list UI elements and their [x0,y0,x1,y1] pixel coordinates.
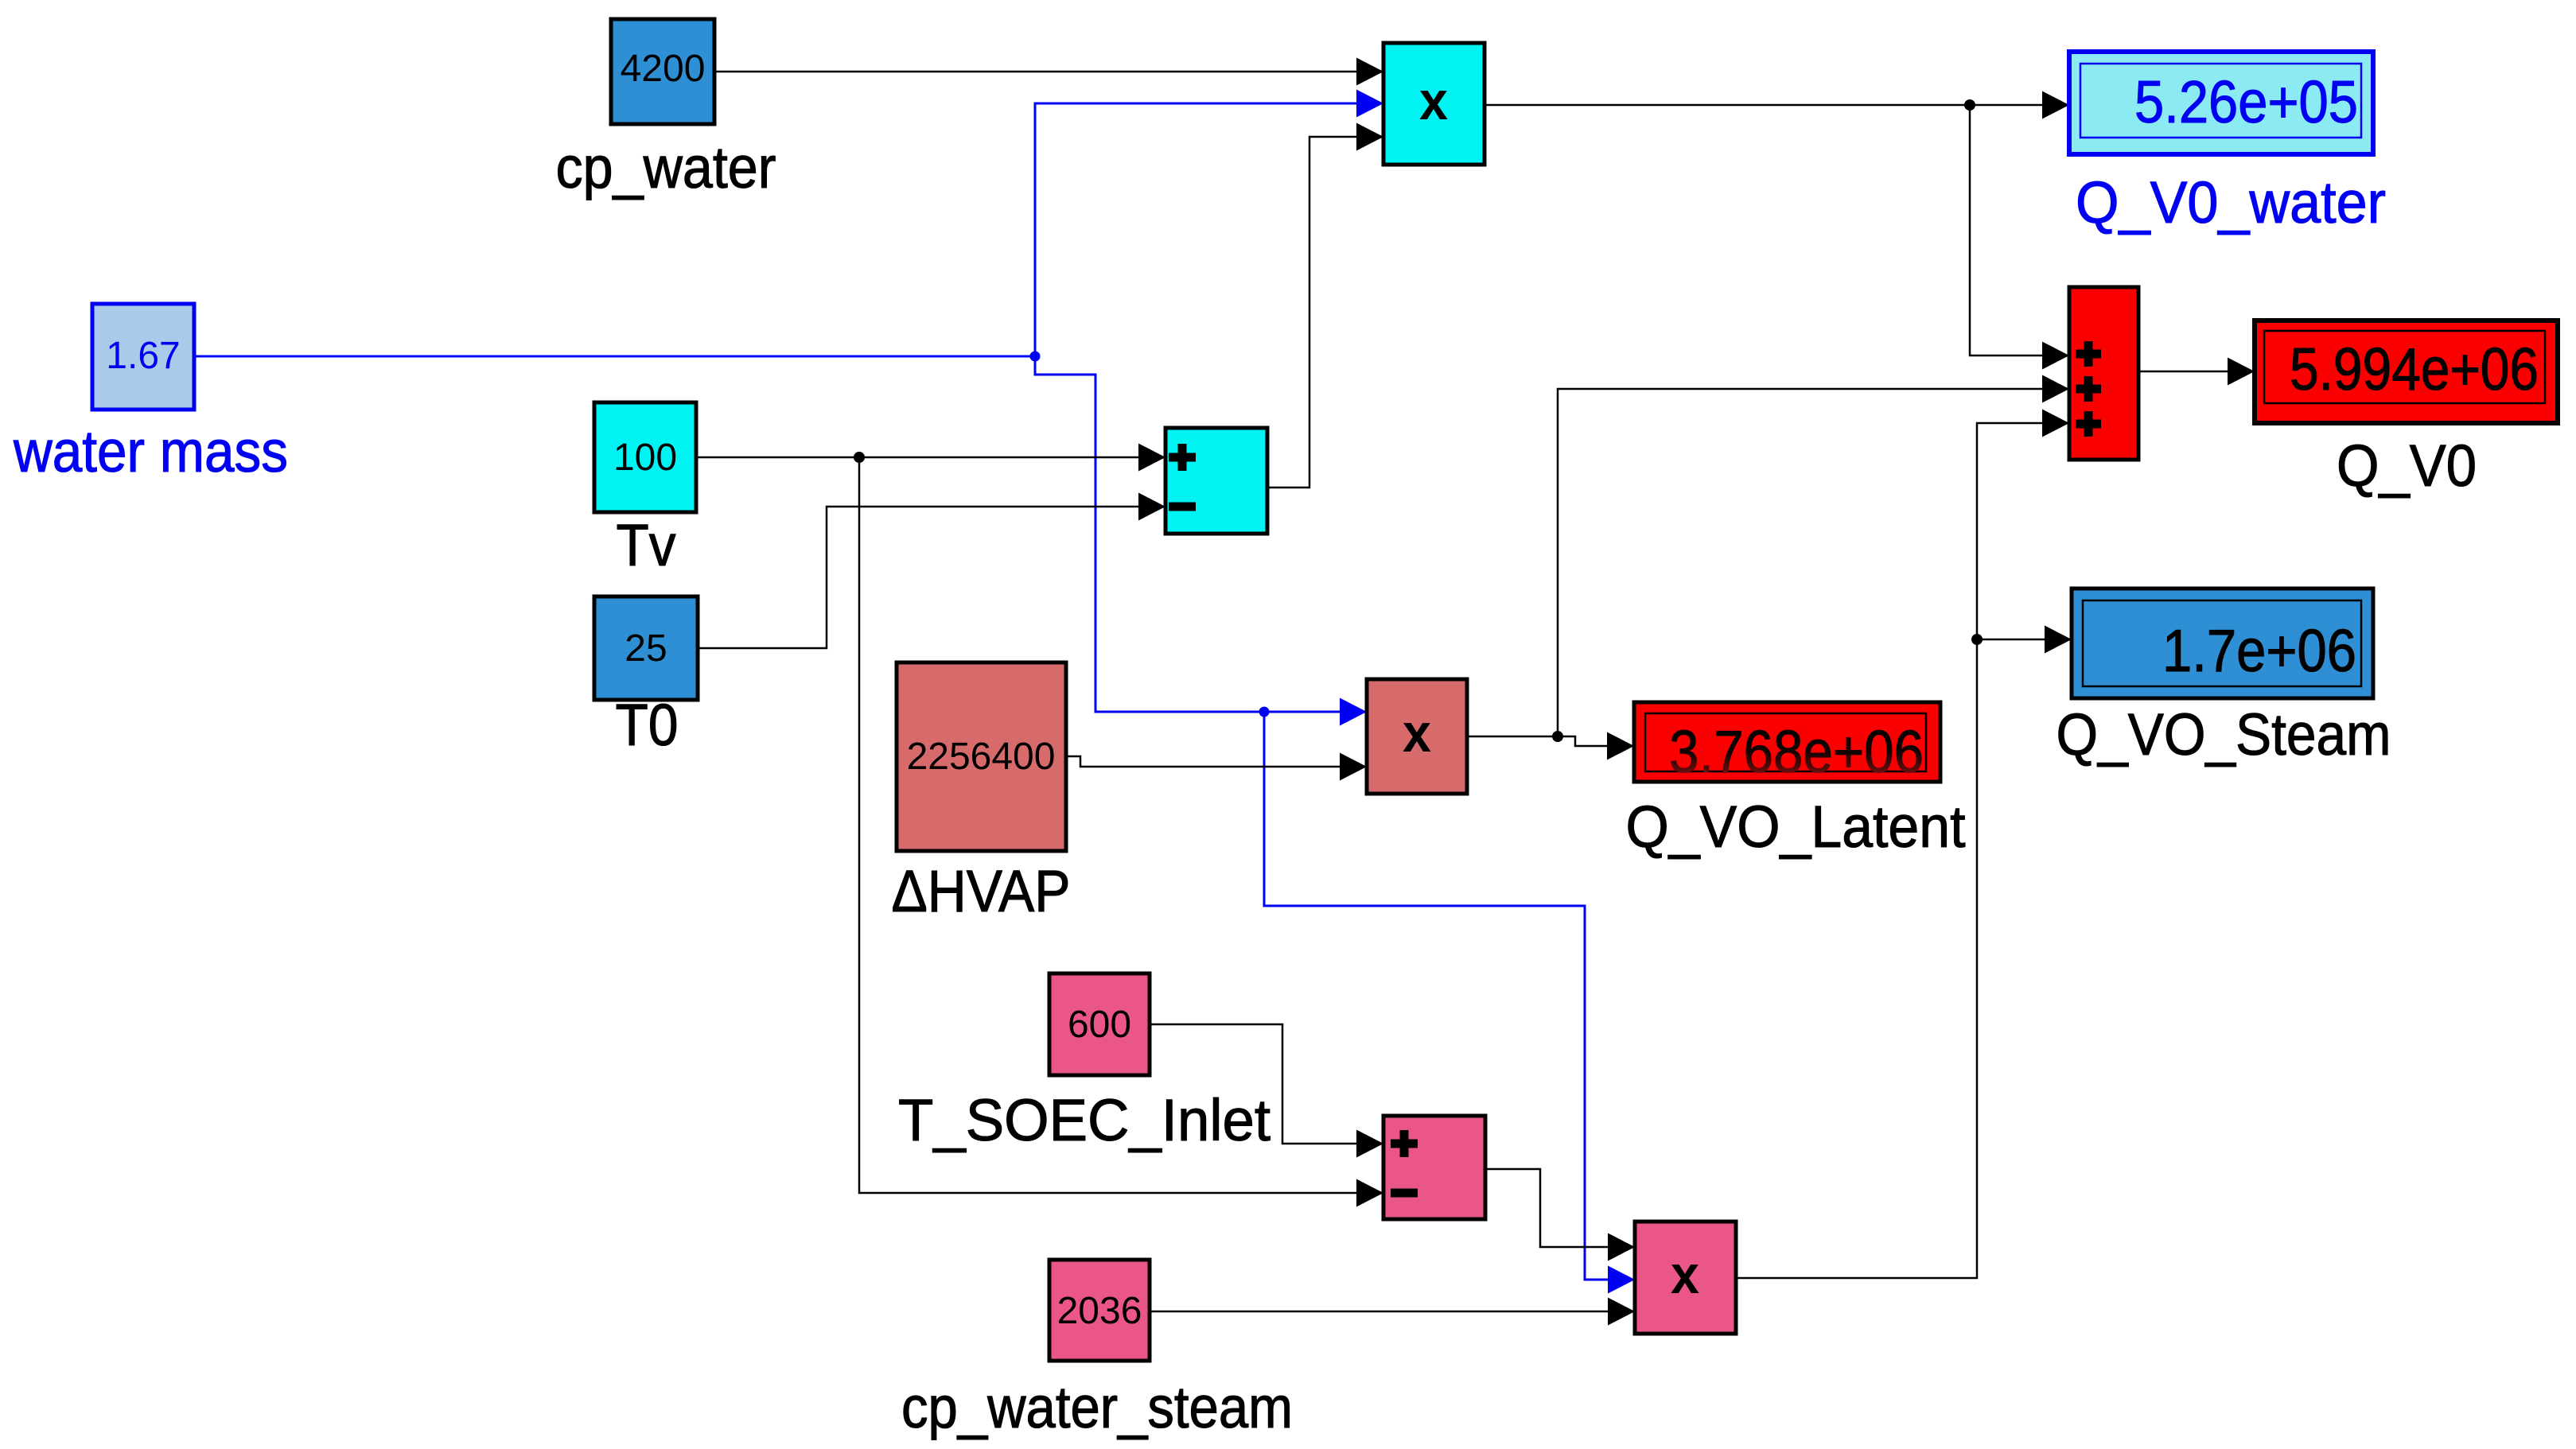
wire junction up to Product1 input2 (blue) [1035,103,1357,356]
svg-text:ΔHVAP: ΔHVAP [892,858,1071,924]
node junction Product1 output [1964,99,1975,111]
wire T0 25 to Sum1 minus input [698,507,1139,648]
display Q_VO_Steam 1.7e+06 [2072,589,2373,698]
constant cp_water 4200 [611,19,714,124]
svg-text:25: 25 [625,627,667,670]
wire Product3 output up to Sum3 input3 [1736,423,2044,1278]
wire junction down to Product2 input1 (blue) [1035,356,1341,712]
wire T_SOEC_Inlet 600 to Sum2 plus input [1150,1024,1357,1144]
svg-text:T_SOEC_Inlet: T_SOEC_Inlet [898,1087,1270,1153]
svg-text:3.768e+06: 3.768e+06 [1669,718,1924,785]
svg-text:Q_V0_water: Q_V0_water [2076,169,2386,235]
sum Sum1 (cyan +-) [1165,428,1267,534]
display Q_V0_water 5.26e+05 [2069,52,2373,154]
constant T_SOEC_Inlet 600 [1049,973,1150,1075]
node blue junction mid [1259,707,1270,717]
product Product3 (pink x) [1635,1222,1736,1334]
sum Sum3 (red +++) [2069,287,2138,460]
node blue junction water-mass [1030,352,1041,362]
svg-text:1.67: 1.67 [106,335,180,377]
svg-text:Tv: Tv [617,512,676,578]
wire blue junction to Product3 input2 (blue) [1264,712,1609,1280]
svg-text:100: 100 [613,437,677,479]
wire Tv junction down to Sum2 minus input [859,457,1357,1193]
wire Product1 output to Display Q_V0_water [1485,104,2044,107]
node junction steam output [1971,634,1983,645]
svg-text:2036: 2036 [1057,1290,1142,1332]
wire junction up to Sum3 input2 [1558,389,2044,736]
constant Tv 100 [594,402,696,512]
constant cp_water_steam 2036 [1049,1260,1150,1361]
wire water mass 1.67 to junction [194,355,1035,358]
wire Sum3 output to Display Q_V0 [2138,371,2228,373]
wire Sum1 output to Product1 input3 [1267,137,1357,488]
wire cp_water 4200 to Product1 input1 [714,71,1357,73]
svg-text:Q_V0: Q_V0 [2337,433,2477,499]
constant T0 25 [594,596,698,700]
node junction Product2 output [1552,731,1563,742]
wire junction down to Sum3 input1 [1970,105,2044,355]
svg-text:Q_VO_Latent: Q_VO_Latent [1626,794,1966,860]
svg-text:cp_water: cp_water [556,134,776,200]
wire DHVAP 2256400 to Product2 input2 [1066,756,1341,767]
svg-text:5.994e+06: 5.994e+06 [2290,336,2539,402]
svg-text:x: x [1671,1245,1699,1305]
wire Product2 output to Display Q_VO_Latent [1467,736,1608,746]
display Q_VO_Latent 3.768e+06 [1634,702,1940,782]
wire Tv 100 to Sum1 plus input [696,456,1139,459]
display Q_V0 5.994e+06 [2255,320,2558,423]
svg-text:2256400: 2256400 [907,736,1056,778]
svg-text:T0: T0 [616,692,679,758]
svg-text:water mass: water mass [13,418,288,484]
svg-text:Q_VO_Steam: Q_VO_Steam [2057,701,2391,767]
constant water mass 1.67 [92,304,194,410]
wire Sum2 output to Product3 input1 [1485,1169,1609,1247]
constant DHVAP 2256400 [897,662,1066,851]
svg-text:600: 600 [1068,1004,1131,1046]
wire junction to Display Q_VO_Steam [1977,639,2045,641]
svg-text:4200: 4200 [621,48,706,90]
wire cp_water_steam 2036 to Product3 input3 [1150,1311,1609,1313]
svg-text:5.26e+05: 5.26e+05 [2134,68,2358,135]
svg-text:1.7e+06: 1.7e+06 [2162,617,2356,684]
node junction Tv [854,452,865,463]
svg-text:cp_water_steam: cp_water_steam [901,1374,1293,1440]
svg-text:x: x [1419,71,1448,131]
product Product1 (cyan x) [1383,43,1485,165]
svg-text:x: x [1403,703,1431,763]
product Product2 (red x) [1367,679,1467,794]
sum Sum2 (pink +-) [1383,1116,1485,1219]
